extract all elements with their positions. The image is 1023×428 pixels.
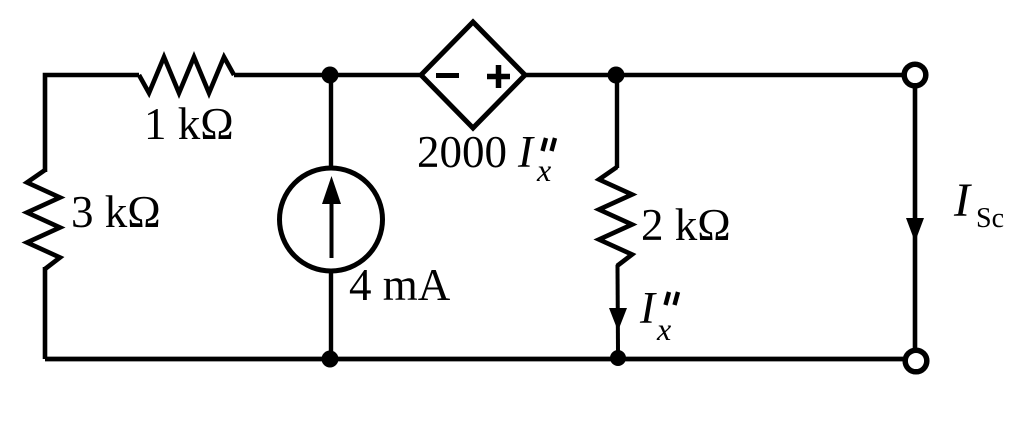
terminal bottom open circle [905,350,927,372]
node dot bottom of current source [322,351,339,368]
wire 2k branch lower with arrow shaft [616,265,621,352]
plus sign inside diamond [487,65,510,88]
svg-text:Sc: Sc [976,203,1004,234]
resistor R1 1 kOhm zigzag [139,57,234,93]
arrow head Isc downward [906,218,924,242]
svg-text:I: I [639,283,657,333]
node dot top of 2k branch [608,67,625,84]
svg-text:1 kΩ: 1 kΩ [144,99,234,149]
svg-text:I: I [953,174,972,227]
current source I1 circle [280,168,383,271]
svg-text:x: x [656,311,671,347]
resistor R2 3 kOhm zigzag [27,170,60,269]
wire current source branch upper [329,75,333,170]
svg-text:I: I [517,127,535,177]
terminal top open circle [904,64,926,86]
wire top right (diamond to terminal) [525,73,902,78]
svg-text:2000: 2000 [417,127,507,177]
svg-text:4 mA: 4 mA [349,260,451,310]
svg-text:3 kΩ: 3 kΩ [71,187,161,237]
wire current source branch lower [329,270,333,359]
wire bottom [45,357,903,362]
wire right vertical [913,86,918,349]
node dot top of current source [322,67,339,84]
svg-text:x: x [536,152,551,188]
wire top middle (R1 to diamond) [234,73,421,78]
wire 2k branch upper [615,75,619,168]
minus sign inside diamond [436,73,459,78]
wire left lower segment [43,267,48,359]
current source arrow [330,200,334,258]
svg-text:2 kΩ: 2 kΩ [641,200,731,250]
node dot bottom of 2k branch [610,350,626,366]
wire top segment left (corner to R1) [45,75,139,172]
arrow head Ix'' downward [609,308,627,331]
resistor R3 2 kOhm zigzag [599,167,632,266]
dependent source U1 diamond [421,22,525,128]
